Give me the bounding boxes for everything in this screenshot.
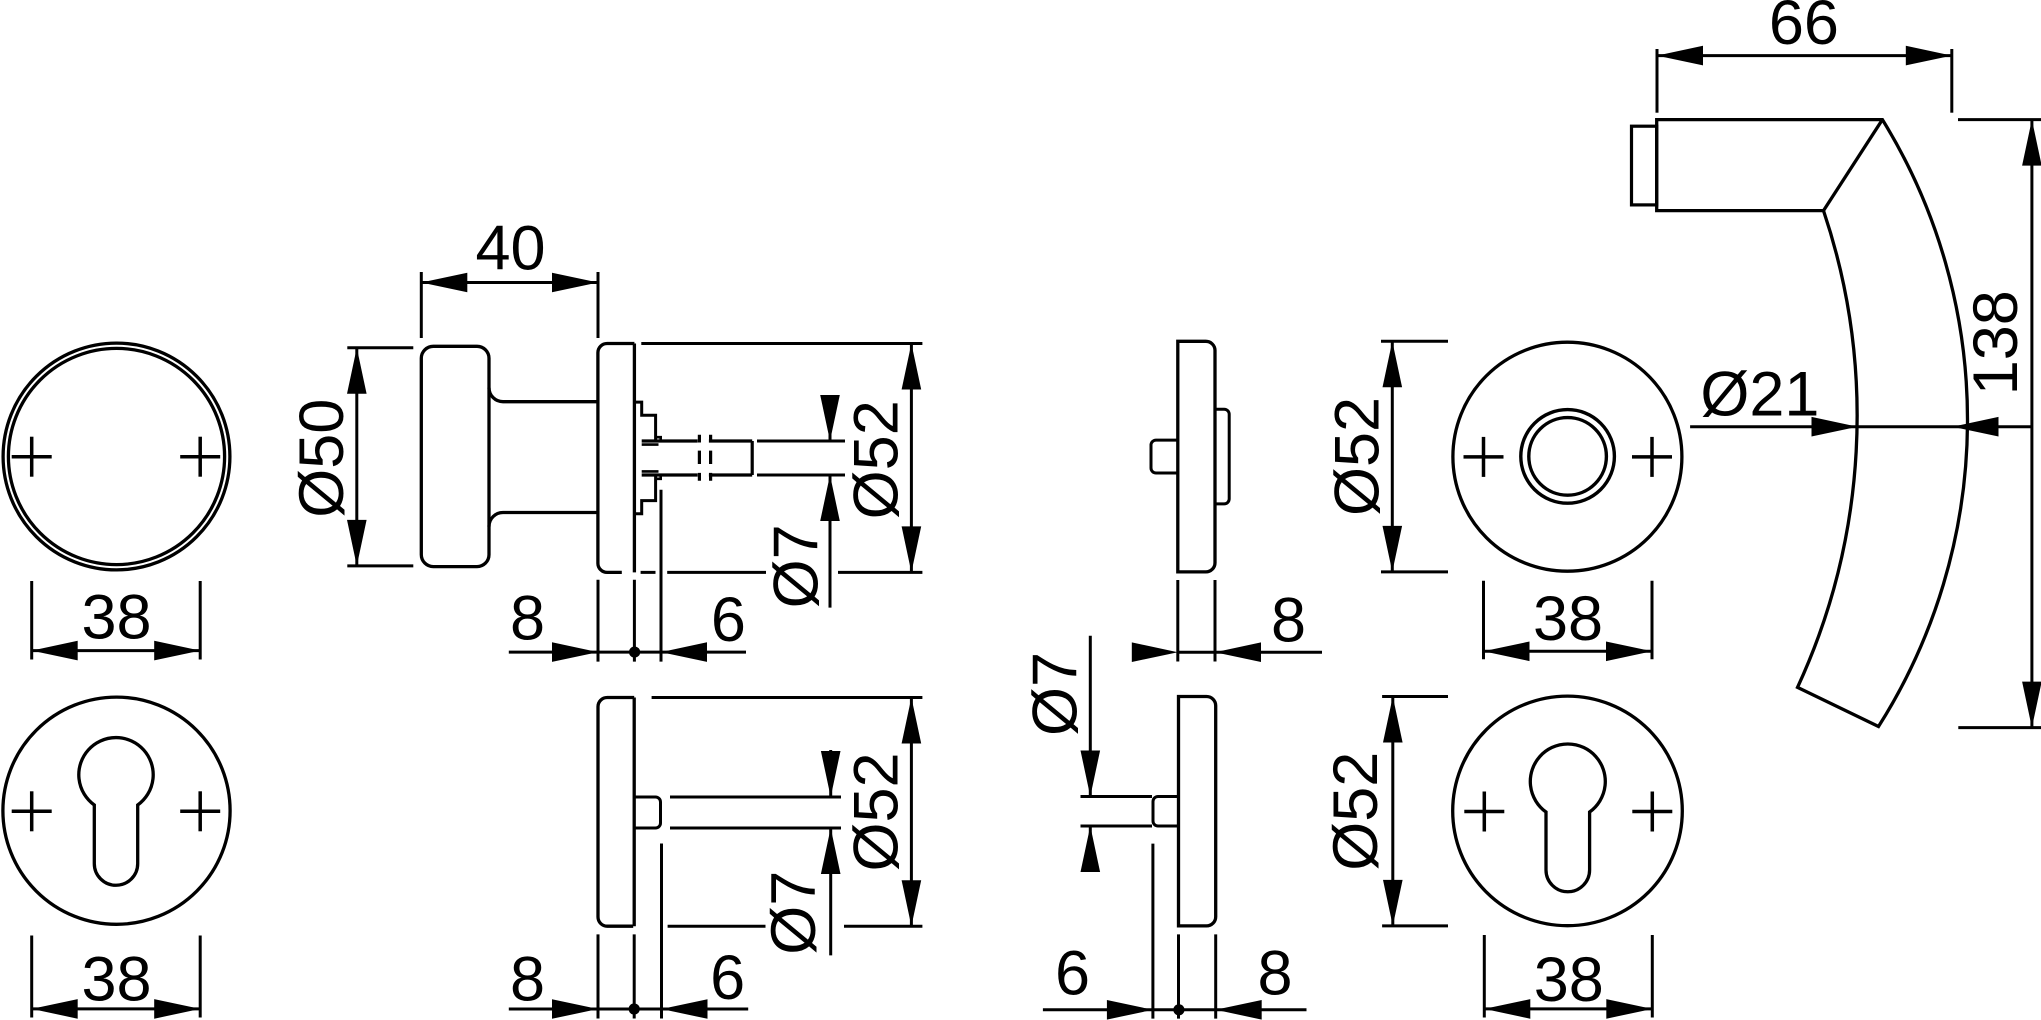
dim C O7 bottom extension line — [757, 474, 845, 477]
dim B 38 left arrow — [32, 999, 78, 1019]
dim C O50 top arrow — [347, 348, 367, 394]
dim F O52 dimension line — [1391, 341, 1394, 572]
rose I circle — [1453, 696, 1683, 926]
svg-text:6: 6 — [710, 943, 745, 1013]
dim I 38 left arrow — [1484, 999, 1530, 1019]
dim C O52 top arrow — [902, 344, 922, 390]
svg-text:8: 8 — [510, 945, 545, 1015]
dim D 6 tail line — [662, 1008, 749, 1011]
dim D 8 arrow — [552, 999, 598, 1019]
dim D O7 lower arrow — [821, 828, 841, 874]
dim C O52 bottom extension line — [641, 571, 923, 574]
dim I O52 bottom tick — [1382, 924, 1448, 927]
dim G 66 left extension line — [1656, 49, 1659, 113]
rose B left screw-hole cross — [12, 791, 52, 831]
dim C O7 top extension line — [757, 440, 845, 443]
dim H 8 left extension line — [1177, 934, 1180, 1018]
dim A 38 dimension line — [32, 649, 201, 652]
dim F 38 dimension line — [1484, 650, 1653, 653]
dim H 8 right extension line — [1214, 934, 1217, 1018]
rose A right screw-hole cross — [180, 437, 220, 477]
dim C O7 upper arrow — [820, 395, 840, 441]
rose B PZ keyhole — [79, 738, 153, 886]
svg-text:8: 8 — [1257, 939, 1292, 1009]
dim F O52 top tick — [1381, 340, 1448, 343]
dim C 40 right arrow — [552, 273, 598, 293]
svg-text:38: 38 — [81, 583, 151, 653]
svg-text:40: 40 — [475, 214, 545, 284]
dim E 8 right arrow — [1215, 642, 1261, 662]
dim C 8 arrow — [552, 642, 598, 662]
svg-text:38: 38 — [1534, 945, 1604, 1015]
lever G ferrule — [1632, 126, 1657, 205]
dim C 6 tail line — [661, 651, 746, 654]
svg-text:6: 6 — [711, 585, 746, 655]
dim G 66 right extension line — [1950, 49, 1953, 113]
dim I 38 right extension line — [1651, 935, 1654, 1018]
dim C O52 bottom arrow — [902, 526, 922, 572]
dim I O52 bottom arrow — [1383, 880, 1403, 926]
dim C 40 right extension line — [597, 272, 600, 338]
dim I O52 top arrow — [1383, 697, 1403, 743]
dim D O7 upper arrow — [821, 751, 841, 797]
dim I O52 top tick — [1382, 695, 1448, 698]
dim I 38 dimension line — [1484, 1007, 1652, 1010]
dim C O50 dimension line — [355, 348, 358, 566]
svg-text:Ø52: Ø52 — [842, 400, 912, 519]
rose B circle — [3, 697, 230, 924]
dim I 38 left extension line — [1483, 935, 1486, 1018]
dim F O52 top arrow — [1383, 341, 1403, 387]
rose A left screw-hole cross — [12, 437, 52, 477]
dim D 8 dimension line — [509, 1008, 662, 1011]
rose I right screw-hole cross — [1632, 792, 1672, 832]
dim H O7 bottom extension line — [1081, 825, 1153, 828]
dim D junction dot — [629, 1003, 640, 1014]
dim G 66 left arrow — [1657, 46, 1703, 66]
dim E 8 tail line — [1215, 651, 1322, 654]
dim A 38 left arrow — [32, 641, 78, 661]
rose H plate (side view) — [1179, 697, 1216, 926]
dim E 8 left extension line — [1176, 580, 1179, 662]
svg-text:Ø50: Ø50 — [287, 399, 357, 518]
dim E 8 right extension line — [1214, 580, 1217, 662]
dim D 8 left extension line — [597, 934, 600, 1018]
svg-text:Ø52: Ø52 — [842, 752, 912, 871]
dim C 6 extension line — [660, 490, 663, 662]
rose D cylinder stub — [634, 797, 660, 828]
dim C 8 right extension line — [633, 580, 636, 662]
rose E spindle stub — [1151, 440, 1178, 473]
dim G 138 top arrow — [2022, 120, 2041, 166]
dim C O7 lower arrow — [820, 475, 840, 521]
dim C 6 arrow — [661, 642, 707, 662]
dim H mid dimension line — [1153, 1008, 1216, 1011]
dim F O52 bottom arrow — [1383, 526, 1403, 572]
dim C O7 upper leader — [829, 397, 832, 441]
svg-text:Ø7: Ø7 — [762, 524, 832, 608]
dim B 38 left extension line — [30, 936, 33, 1018]
dim C junction dot — [629, 647, 640, 658]
dim B 38 right extension line — [199, 936, 202, 1018]
svg-text:38: 38 — [1533, 584, 1603, 654]
dim C O50 bottom tick — [347, 564, 413, 567]
dim F 38 right extension line — [1651, 581, 1654, 659]
dim I O52 dimension line — [1391, 697, 1394, 926]
dim C 8 left extension line — [597, 580, 600, 662]
rose F outer circle — [1453, 342, 1682, 571]
dim C 8 dimension line — [509, 651, 661, 654]
svg-text:Ø52: Ø52 — [1323, 397, 1393, 516]
rose I left screw-hole cross — [1464, 792, 1504, 832]
rose F left screw-hole cross — [1464, 437, 1504, 477]
dim H 6 extension line — [1151, 844, 1154, 1019]
spindle C bottom edge — [642, 473, 753, 476]
dim C O50 bottom arrow — [347, 520, 367, 566]
dim B 38 right arrow — [154, 999, 200, 1019]
knob C head (front disc) — [421, 346, 489, 566]
dim A 38 left extension line — [30, 581, 33, 660]
dim D O52 top arrow — [902, 698, 922, 744]
svg-text:Ø52: Ø52 — [1321, 752, 1391, 871]
rose D plate (side view) — [598, 698, 634, 927]
rose F hole inner ring — [1529, 418, 1607, 496]
dim D O7 lower leader — [829, 828, 832, 955]
dim F 38 left extension line — [1482, 581, 1485, 659]
rose E snap bump — [1215, 409, 1229, 504]
dim C O7 lower leader — [829, 475, 832, 608]
dim C 40 left arrow — [421, 273, 467, 293]
spindle C top edge — [642, 439, 753, 442]
dim G O21 outer arrow — [1953, 417, 1999, 437]
dim A 38 right extension line — [199, 581, 202, 660]
dim D O7 upper leader — [829, 750, 832, 797]
dim D O52 dimension line — [910, 698, 913, 927]
dim F 38 right arrow — [1606, 642, 1652, 662]
dim D O7 top extension line — [670, 796, 841, 799]
dim E 8 left arrow — [1132, 642, 1178, 662]
dim C O52 top extension line — [641, 342, 922, 345]
dim H junction dot — [1173, 1004, 1184, 1015]
rose B right screw-hole cross — [180, 791, 220, 831]
dim D 6 arrow — [662, 999, 708, 1019]
rose F hole outer ring — [1521, 410, 1615, 504]
dim E 8 dimension line — [1178, 651, 1215, 654]
hub C step flange outline — [634, 402, 655, 514]
rose H cylinder stub — [1153, 797, 1179, 827]
svg-text:38: 38 — [81, 945, 151, 1015]
dim D O7 bottom extension line — [670, 827, 841, 830]
rose I PZ keyhole — [1530, 744, 1605, 892]
svg-text:8: 8 — [510, 584, 545, 654]
dim I 38 right arrow — [1606, 999, 1652, 1019]
dim G 138 bottom arrow — [2022, 682, 2041, 728]
dim D O52 bottom arrow — [902, 880, 922, 926]
dim H 6 arrow — [1107, 1000, 1153, 1020]
lever G miter line — [1824, 120, 1883, 211]
rose F right screw-hole cross — [1632, 437, 1672, 477]
dim H O7 upper arrow — [1081, 751, 1101, 797]
dim D O52 top extension line — [652, 696, 923, 699]
dim C O50 top tick — [347, 346, 413, 349]
dim G 138 bottom tick — [1958, 726, 2041, 729]
dim G O21 inner arrow — [1812, 417, 1858, 437]
svg-text:66: 66 — [1769, 0, 1839, 58]
dim H O7 top extension line — [1081, 795, 1153, 798]
svg-text:138: 138 — [1961, 290, 2031, 395]
dim H 6 tail line — [1043, 1008, 1153, 1011]
dim B 38 dimension line — [32, 1007, 201, 1010]
knob C neck — [489, 388, 598, 527]
dim F O52 bottom tick — [1381, 570, 1448, 573]
dim G O21 dimension line — [1690, 425, 2032, 428]
dim H 8 tail line — [1216, 1008, 1307, 1011]
dim G 138 dimension line — [2030, 120, 2033, 728]
dim G 138 top tick — [1958, 118, 2041, 121]
rose E plate (side view) — [1178, 341, 1215, 572]
dim D 6 extension line — [660, 844, 663, 1019]
dim C 40 left extension line — [420, 272, 423, 338]
svg-text:Ø7: Ø7 — [1020, 652, 1090, 736]
dim C 40 dimension line — [421, 281, 598, 284]
svg-text:Ø7: Ø7 — [759, 871, 829, 955]
dim D O52 bottom extension line — [668, 925, 923, 928]
hub C socket edge ticks — [642, 437, 661, 479]
dim F 38 left arrow — [1484, 642, 1530, 662]
spindle C break dashes — [699, 435, 710, 481]
dim A 38 right arrow — [154, 641, 200, 661]
dim H O7 lower leader — [1089, 826, 1092, 871]
dim D 8 right extension line — [633, 934, 636, 1018]
spindle C end edge — [751, 441, 754, 475]
rose A inner rim circle — [8, 348, 224, 564]
dim H 8 arrow — [1216, 1000, 1262, 1020]
svg-text:6: 6 — [1055, 939, 1090, 1009]
dim H O7 upper leader — [1089, 636, 1092, 797]
rose A outer circle — [3, 343, 230, 570]
rose C plate (side view) — [598, 344, 635, 573]
dim H O7 lower arrow — [1081, 826, 1101, 872]
dim C O52 dimension line — [910, 344, 913, 573]
lever G body outline — [1657, 120, 1968, 727]
svg-text:8: 8 — [1271, 586, 1306, 656]
svg-text:Ø21: Ø21 — [1700, 359, 1819, 429]
dim G 66 dimension line — [1657, 54, 1952, 57]
dim G 66 right arrow — [1906, 46, 1952, 66]
